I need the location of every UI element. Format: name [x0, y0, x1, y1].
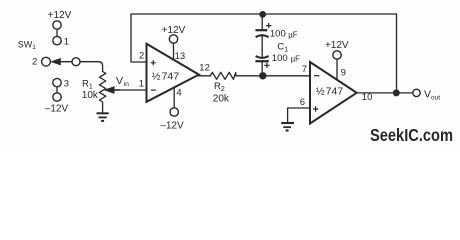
svg-text:10k: 10k [82, 90, 99, 101]
wire: R1 bottom to ground [102, 102, 104, 113]
terminal: -12V (pin 4) [170, 108, 178, 116]
op-amp U2 minus sign [314, 75, 319, 77]
svg-text:6: 6 [300, 97, 305, 108]
svg-text:100µF: 100µF [272, 53, 300, 64]
svg-text:Vin: Vin [116, 75, 129, 88]
wire: pin 4 to -12V [173, 88, 175, 108]
terminal: +12V (pin 13) [169, 35, 177, 43]
switch SW1 arrow (wiper to pole) [51, 58, 72, 65]
svg-text:–12V: –12V [45, 103, 69, 114]
wire: V_in wiper to op-amp pin 1 [113, 89, 146, 91]
svg-text:1: 1 [139, 78, 144, 89]
svg-text:SW1: SW1 [18, 39, 37, 51]
svg-text:2: 2 [139, 50, 144, 61]
svg-text:Vout: Vout [424, 89, 440, 102]
svg-text:9: 9 [341, 67, 346, 78]
terminal: switch contact 3 [53, 78, 61, 86]
ground (below R1) [97, 113, 109, 121]
terminal: +12V (pin 9) [333, 51, 341, 59]
svg-text:7: 7 [302, 64, 307, 75]
wire: +12V terminal to contact 1 [56, 29, 58, 36]
svg-text:13: 13 [175, 51, 186, 62]
svg-text:–12V: –12V [160, 121, 184, 132]
capacitor C1 lower half (100 uF) [255, 56, 268, 61]
wire: C1 bottom to node [261, 62, 263, 76]
terminal: switch pole 2 [42, 57, 51, 66]
svg-text:½747: ½747 [316, 86, 343, 98]
wire: pin 6 to ground [288, 108, 310, 122]
op-amp U2 (1/2 747, second half) [310, 62, 357, 124]
svg-text:+12V: +12V [325, 40, 349, 51]
op-amp U1 plus sign [151, 60, 156, 65]
wire: pin 13 to +12V [173, 43, 175, 60]
resistor R2 20k [210, 72, 236, 79]
svg-text:SeekIC.com: SeekIC.com [370, 125, 453, 145]
svg-text:R2: R2 [214, 81, 225, 93]
wire: between capacitor halves [261, 35, 263, 58]
svg-text:20k: 20k [213, 93, 230, 104]
svg-text:10: 10 [362, 92, 373, 103]
svg-text:+12V: +12V [162, 25, 186, 36]
wire: pin 12 output to R2 [199, 75, 211, 77]
svg-text:R1: R1 [82, 78, 93, 90]
capacitor C1 lower plus sign [264, 63, 269, 68]
op-amp U1 minus sign [151, 89, 156, 91]
terminal: +12V (switch top) [53, 21, 61, 29]
wire: switch pole to R1 top [80, 62, 103, 72]
svg-text:+12V: +12V [48, 10, 72, 21]
node: top rail / C1 junction [259, 11, 266, 18]
svg-text:½747: ½747 [152, 70, 179, 82]
svg-text:4: 4 [176, 88, 181, 99]
capacitor C1 upper plus sign [266, 23, 271, 28]
svg-text:C1: C1 [277, 42, 288, 54]
wire: pin 10 output to Vout [357, 92, 413, 94]
ground (at pin 6 of U2) [281, 123, 294, 131]
wire: R2 to node to pin 7 [236, 75, 310, 77]
op-amp U2 plus sign [313, 106, 318, 111]
svg-text:1: 1 [64, 37, 69, 48]
node: R2 / C1 / pin7 junction [259, 72, 266, 79]
node: Vout / feedback junction [393, 89, 400, 96]
wire: feedback loop (Vout node up, top rail, down to pin 2) [131, 14, 397, 90]
terminal: -12V (switch bottom) [53, 93, 61, 101]
terminal: switch contact 1 [53, 36, 61, 44]
wire: contact 3 to -12V terminal [56, 87, 58, 93]
capacitor C1 upper half (100 uF) [255, 30, 268, 37]
svg-text:100µF: 100µF [270, 29, 298, 40]
op-amp U1 (1/2 747, first half) [147, 44, 199, 102]
wire: pin 9 to +12V [336, 59, 338, 80]
terminal: Vout [413, 89, 420, 96]
terminal: switch moving contact [72, 58, 80, 66]
svg-text:2: 2 [32, 57, 37, 68]
resistor R1 (10k potentiometer body) [99, 72, 105, 102]
potentiometer R1 wiper arrow [105, 87, 121, 94]
svg-text:12: 12 [199, 63, 210, 74]
wire: top rail junction down to C1 [261, 14, 263, 29]
svg-text:3: 3 [64, 78, 69, 89]
